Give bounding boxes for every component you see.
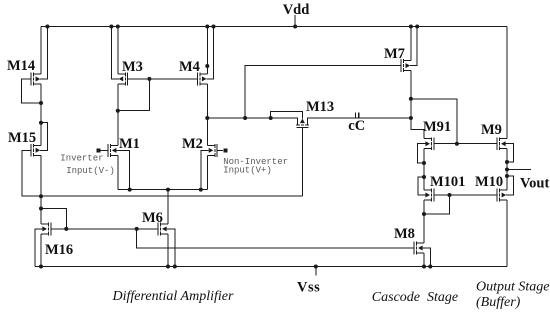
svg-text:Vout: Vout	[520, 176, 549, 192]
wire M16 bulk to Vss rail	[35, 229, 40, 267]
svg-text:M13: M13	[306, 99, 334, 115]
transistor M8	[414, 242, 424, 255]
wire rail-left down to M14 drain	[40, 27, 42, 75]
wire M1 bulk to tail	[118, 150, 129, 189]
Vss rail	[35, 266, 507, 268]
svg-text:M15: M15	[8, 130, 36, 146]
wire M7 drain to M91 gate loop	[411, 99, 457, 144]
wire M10 bulk bracket	[507, 176, 514, 195]
svg-text:Inverter: Inverter	[60, 153, 103, 163]
wire M101 gate line to M10 gate	[434, 194, 497, 196]
Vdd rail	[41, 26, 507, 28]
wire M6 bulk to Vss rail	[169, 229, 175, 267]
svg-text:M7: M7	[384, 46, 405, 62]
transistor M13	[296, 117, 309, 127]
wire M3 bulk to rail	[111, 27, 117, 79]
wire M1 gate to square	[101, 149, 108, 151]
wire M15 bulk bracket	[41, 123, 47, 151]
transistor M1	[108, 144, 118, 157]
transistor M7	[401, 59, 411, 72]
wire M9 bulk bracket	[507, 144, 513, 162]
wire M4 bulk to rail	[208, 27, 214, 79]
svg-text:M9: M9	[481, 122, 502, 138]
svg-text:Cascode Stage: Cascode Stage	[372, 290, 458, 305]
Vss tick	[315, 267, 317, 276]
transistor M10	[497, 189, 507, 202]
svg-text:Output Stage: Output Stage	[476, 280, 550, 295]
svg-text:M91: M91	[423, 119, 451, 135]
wire M8 bulk to Vss rail	[425, 248, 431, 267]
wire M13 right stub to M7 drain (compensation line)	[307, 117, 411, 119]
wire M3 drain to rail	[117, 27, 119, 74]
wire M6 source to Vss rail	[167, 234, 169, 267]
wire M3 source down to M1 drain	[117, 84, 119, 145]
svg-text:M14: M14	[7, 58, 35, 74]
wire gate bias branch down to M8 gate	[137, 229, 414, 248]
svg-text:M101: M101	[430, 174, 465, 190]
node line first stage output (line B)	[207, 117, 297, 119]
svg-text:M16: M16	[45, 242, 73, 258]
wire M8 source to Vss rail	[423, 253, 425, 267]
transistor M101	[424, 189, 434, 202]
svg-text:M10: M10	[475, 174, 503, 190]
wire M15 source down to M16 drain	[40, 155, 42, 224]
wire rail-right down to M9 drain	[506, 27, 508, 139]
svg-text:cC: cC	[348, 118, 365, 134]
wire M4 source down to M2 drain	[206, 84, 208, 145]
svg-text:M6: M6	[142, 210, 163, 226]
transistor M9	[497, 137, 507, 150]
svg-text:Differential Amplifier: Differential Amplifier	[112, 289, 234, 304]
wire M1 source to tail	[117, 155, 119, 189]
wire M101 bulk bracket	[418, 177, 424, 195]
svg-text:Vss: Vss	[297, 280, 320, 296]
wire M16 diode loop	[41, 209, 66, 229]
transistor M4	[197, 73, 207, 86]
svg-text:Input(V+): Input(V+)	[223, 165, 272, 175]
input square V+	[223, 148, 227, 152]
wire M91 bulk bracket	[417, 144, 424, 163]
wire M2 source to tail	[206, 155, 208, 189]
tail line	[118, 189, 208, 191]
svg-text:M1: M1	[119, 136, 140, 152]
Vdd tick	[294, 15, 296, 27]
transistor M16	[41, 223, 51, 236]
wire M6 drain up to tail	[167, 190, 169, 224]
wire M16 source to Vss rail	[40, 234, 42, 267]
wire M4 drain to rail	[206, 27, 208, 74]
svg-text:M4: M4	[179, 59, 200, 75]
wire M10 source to Vss rail	[506, 200, 508, 267]
wire M15 gate diode loop / bias line to M13 gate	[22, 150, 302, 196]
wire M101 source down to M8 drain	[423, 200, 425, 243]
input square V-	[96, 148, 100, 152]
svg-text:M3: M3	[122, 59, 143, 75]
transistor M2	[207, 144, 217, 157]
wire M2 bulk to tail	[201, 150, 207, 189]
wire M14 gate diode loop	[22, 79, 41, 103]
wire M101 drain up	[423, 177, 425, 190]
wire M3 mirror loop to gate line	[118, 79, 150, 111]
wire M7 drain to rail	[410, 27, 412, 61]
wire M13 gate down to bias line	[301, 128, 303, 197]
wire M3-M4 gate line	[128, 78, 198, 80]
wire M7 gate branch	[245, 66, 401, 118]
Vout tick	[507, 169, 531, 171]
wire M14 source down to M15 drain	[40, 84, 42, 145]
capacitor cC	[356, 113, 359, 119]
wire M9 source down to M10	[506, 149, 508, 190]
transistor M6	[158, 223, 168, 236]
svg-text:(Buffer): (Buffer)	[476, 295, 521, 310]
wire M91 gate line to M9 gate	[434, 143, 497, 145]
transistor M91	[424, 137, 434, 150]
svg-text:Vdd: Vdd	[283, 2, 310, 18]
wire M16 gate line to M6 gate	[51, 228, 158, 230]
transistor M3	[117, 73, 127, 86]
wire M91 source down	[423, 149, 425, 177]
wire M2 gate to square	[217, 149, 223, 151]
wire M8 drain to M101 gate loop	[424, 195, 450, 214]
wire M7 source down to M91	[411, 71, 424, 139]
wire M14 bulk to rail	[42, 27, 48, 80]
svg-text:M2: M2	[182, 136, 203, 152]
wire M7 bulk to rail	[411, 27, 417, 66]
transistor M15	[31, 144, 41, 157]
wire M13 bulk loop	[271, 112, 303, 118]
svg-text:Input(V-): Input(V-)	[66, 166, 115, 176]
transistor M14	[31, 73, 41, 86]
svg-text:M8: M8	[394, 226, 415, 242]
